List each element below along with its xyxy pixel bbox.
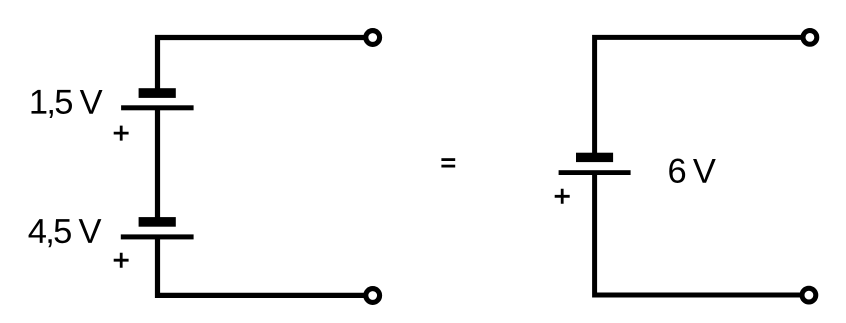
svg-text:1,5 V: 1,5 V bbox=[29, 84, 103, 122]
svg-text:4,5 V: 4,5 V bbox=[28, 213, 102, 251]
svg-text:6 V: 6 V bbox=[667, 153, 715, 191]
